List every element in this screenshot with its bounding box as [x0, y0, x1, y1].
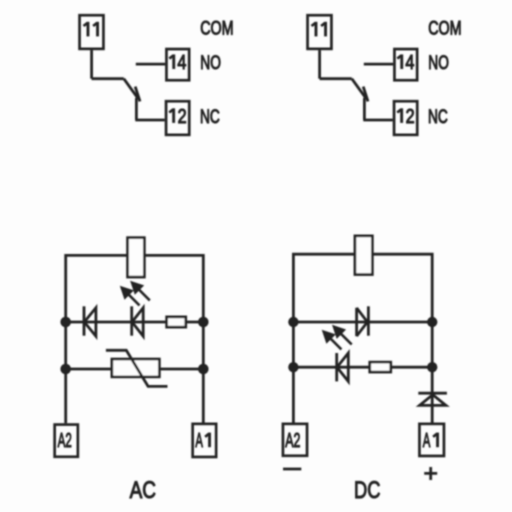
polarity plus label (under A1): [424, 467, 437, 480]
LED (DC indicator): [337, 353, 349, 381]
relay coil (DC): [355, 236, 372, 275]
terminal 12: [166, 101, 189, 135]
junction dot AC line2 right: [198, 364, 209, 375]
terminal 11 (right contact set): [308, 15, 332, 49]
wire from right terminal 11 down: [318, 50, 321, 79]
svg-text:AC: AC: [130, 478, 156, 504]
svg-text:COM: COM: [428, 18, 461, 40]
svg-text:4: 4: [177, 52, 186, 74]
DC branch wire 1 (diode branch): [293, 321, 432, 324]
svg-text:NC: NC: [428, 107, 448, 128]
DC branch wire 2 (LED/resistor branch): [293, 366, 432, 369]
NO fixed contact stub to terminal 14: [136, 63, 165, 66]
wire into terminal 12: [135, 119, 165, 122]
svg-text:NO: NO: [428, 53, 449, 74]
terminal 11 (left contact set): [80, 15, 104, 49]
terminal A1 (AC): [193, 424, 217, 457]
DC outer loop wire (rails + top wire): [293, 254, 432, 422]
right terminal 12: [394, 101, 417, 135]
junction dot DC line2 right: [427, 362, 437, 372]
terminal A2 (AC): [55, 425, 78, 457]
reverse-polarity diode (DC, on A1 rail, points up): [418, 393, 447, 405]
svg-text:DC: DC: [354, 478, 380, 504]
wire into right terminal 12: [363, 119, 393, 122]
polarity minus label (under A2): [283, 468, 301, 471]
terminal A1 (DC): [419, 424, 444, 456]
varistor strike-through: [106, 350, 168, 386]
diode D2 (DC suppressor diode, points right): [357, 306, 369, 336]
wire from right armature to NC branch: [363, 98, 366, 120]
right NO fixed contact stub: [364, 63, 393, 66]
LED light arrows (AC): [120, 281, 144, 300]
LED light arrows (DC): [322, 325, 346, 344]
svg-text:2: 2: [178, 106, 187, 128]
resistor (DC): [370, 362, 391, 372]
terminal 14: [166, 49, 189, 80]
svg-text:A2: A2: [285, 430, 300, 452]
relay coil (AC): [128, 238, 145, 277]
svg-text:2: 2: [406, 106, 415, 128]
wire from armature to NC branch: [135, 98, 138, 120]
junction dot AC line2 left: [60, 364, 71, 375]
AC outer loop wire (rails + top wire): [66, 255, 204, 423]
actuator tick on right armature: [363, 87, 368, 102]
diode D1 (AC rectifier diode): [84, 306, 96, 336]
svg-text:A: A: [195, 430, 203, 452]
movable contact armature (COM): [124, 79, 139, 99]
svg-text:COM: COM: [200, 18, 233, 40]
movable contact armature (right COM): [352, 79, 367, 99]
right terminal 14: [394, 49, 417, 80]
junction dot DC line2 left: [288, 362, 298, 372]
varistor rectangle: [112, 359, 160, 377]
svg-text:NO: NO: [200, 53, 221, 74]
svg-text:A: A: [423, 430, 431, 452]
terminal A2 (DC): [283, 424, 307, 456]
junction dot AC line1 right: [198, 317, 209, 328]
junction dot AC line1 left: [60, 317, 71, 328]
AC branch wire 2 (varistor branch): [66, 368, 204, 371]
wire to pivot of armature: [92, 77, 124, 80]
actuator tick on armature: [135, 87, 140, 102]
svg-text:A2: A2: [58, 430, 72, 452]
wire to pivot of right armature: [320, 77, 352, 80]
LED (AC indicator): [132, 306, 144, 336]
junction dot DC line1 left: [288, 317, 298, 327]
svg-text:4: 4: [405, 52, 414, 74]
resistor (AC): [167, 317, 186, 327]
svg-text:NC: NC: [200, 107, 220, 128]
AC branch wire 1 (diode/LED/resistor branch): [66, 321, 204, 324]
junction dot DC line1 right: [427, 317, 437, 327]
wire from terminal 11 down: [90, 50, 93, 79]
